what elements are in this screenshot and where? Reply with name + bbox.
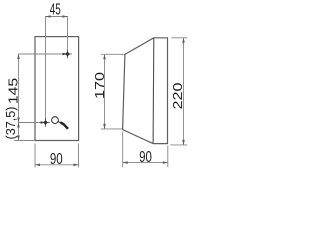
arrows meeting at y=122.5 [17, 118, 20, 123]
dim 45: arrow left [46, 15, 51, 18]
dim 90 (side): extension line left [122, 132, 124, 168]
side view wedge outline [123, 38, 168, 144]
cable entry icon: tail [58, 121, 61, 123]
dim 45: extension line left (through bottom fixing hole) [45, 16, 47, 121]
svg-text:90: 90 [139, 147, 152, 165]
leader arrow at top hole [63, 53, 68, 56]
dim 220: arrows [182, 38, 185, 43]
dim 90 (side): extension line right [167, 146, 169, 168]
svg-text:145: 145 [7, 78, 21, 104]
svg-text:(37,5): (37,5) [3, 107, 18, 140]
dim 90 (front): arrows [35, 164, 40, 167]
arrow up at y=54 [17, 54, 20, 59]
extension of bottom edge to dim column [14, 140, 35, 142]
leader to bottom fixing hole [19, 122, 42, 124]
svg-text:90: 90 [50, 149, 63, 167]
dim column 145 / (37,5): vertical dimension line [18, 54, 20, 141]
leader to top fixing hole [19, 53, 64, 55]
svg-text:220: 220 [172, 82, 186, 109]
side view inner edge [152, 38, 155, 143]
front view housing outline [35, 37, 79, 141]
dim 90 (front): dimension line [35, 164, 79, 166]
dim 170: arrows [103, 54, 106, 59]
dim 220: extension line bottom [170, 144, 187, 146]
dim 220: dimension line [183, 38, 185, 145]
leader arrow at bottom hole [41, 121, 46, 124]
dim 45: extension line right (to top fixing hole) [67, 16, 69, 51]
dim 45: dimension line [46, 16, 68, 18]
dim 90 (side): arrows [123, 161, 128, 164]
dim 170: extension line top (from wedge top-left corner) [101, 53, 125, 55]
dim 90 (side): dimension line [123, 162, 168, 164]
arrow down at y=140.5 [17, 136, 20, 141]
svg-text:45: 45 [50, 0, 61, 18]
cable entry icon: circle [52, 117, 59, 124]
dim 220: extension line top [171, 37, 187, 39]
bottom fixing hole cross [41, 118, 49, 126]
svg-text:170: 170 [93, 72, 107, 99]
dim 45: arrow right [63, 15, 68, 18]
dim 170: dimension line [104, 54, 106, 129]
dim 90 (front): extension line right [78, 144, 80, 168]
top fixing hole cross [63, 50, 71, 58]
dim 170: extension line bottom (from wedge bottom-left corner) [101, 128, 123, 130]
dim 90 (front): extension line left [34, 144, 36, 168]
